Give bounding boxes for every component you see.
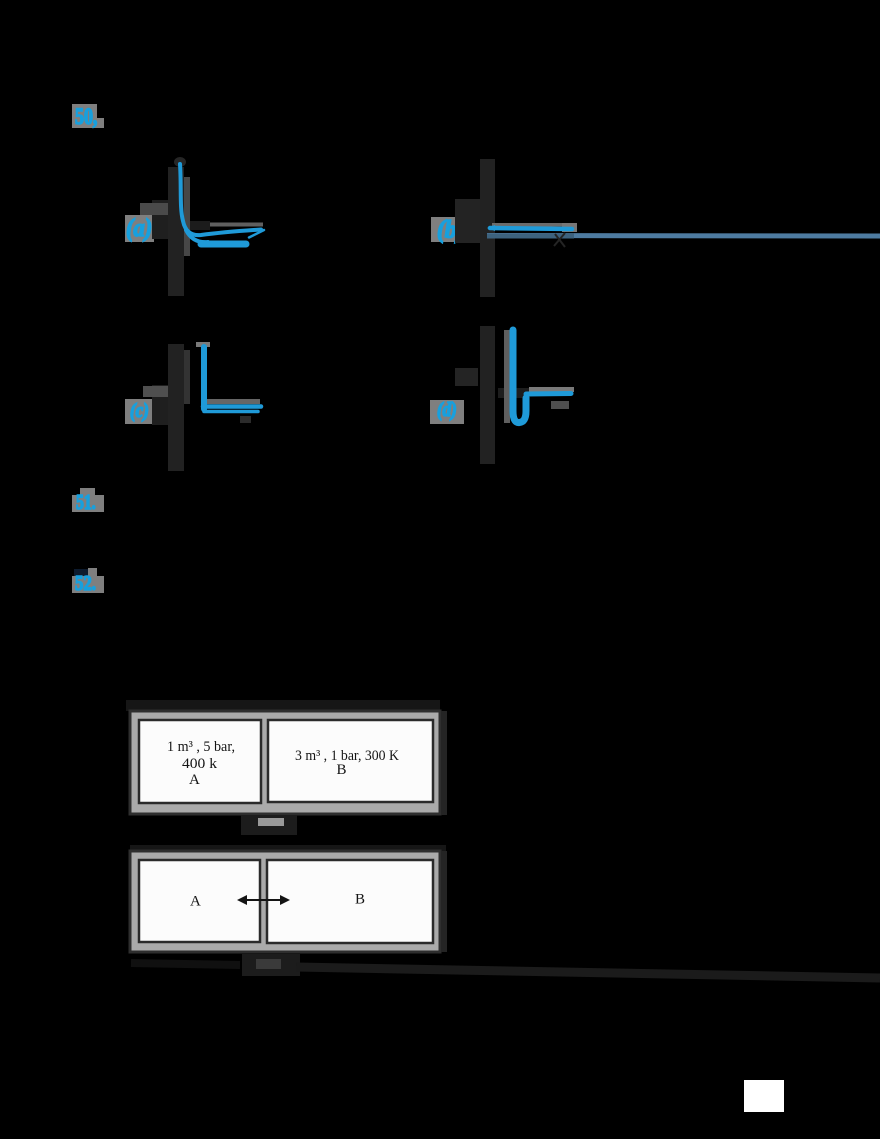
svg-text:(c): (c) bbox=[130, 400, 149, 423]
svg-text:50,: 50, bbox=[75, 105, 97, 130]
svg-text:(d): (d) bbox=[437, 399, 457, 422]
svg-text:3 m³ , 1 bar, 300 K: 3 m³ , 1 bar, 300 K bbox=[295, 748, 399, 764]
svg-text:A: A bbox=[190, 894, 201, 910]
svg-text:51.: 51. bbox=[76, 491, 96, 515]
svg-text:B: B bbox=[355, 892, 365, 908]
svg-text:52.: 52. bbox=[75, 572, 96, 595]
svg-text:1 m³ , 5 bar,: 1 m³ , 5 bar, bbox=[167, 739, 235, 755]
svg-text:(a): (a) bbox=[126, 215, 152, 242]
svg-text:B: B bbox=[337, 762, 347, 778]
svg-text:A: A bbox=[189, 772, 200, 788]
svg-text:400 k: 400 k bbox=[182, 756, 218, 772]
